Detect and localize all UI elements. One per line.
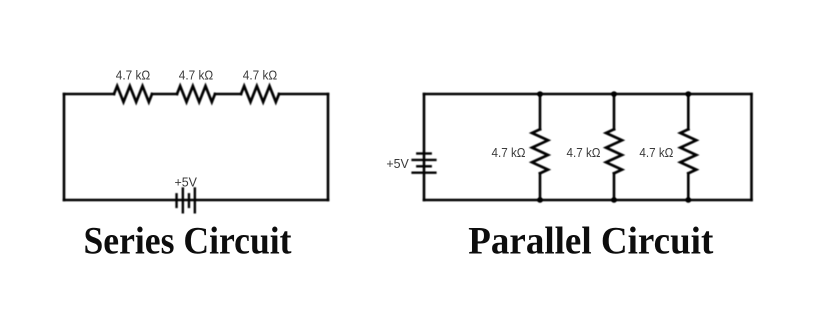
resistor R2 4.7 kΩ (series) <box>177 86 215 102</box>
svg-text:+5V: +5V <box>174 174 197 189</box>
svg-text:4.7 kΩ: 4.7 kΩ <box>567 145 601 160</box>
wire: branch 1 bottom lead <box>539 173 542 200</box>
resistor R3 4.7 kΩ (series) <box>241 86 279 102</box>
junction dot: bottom rail / branch 2 <box>611 197 617 203</box>
junction dot: top rail / branch 2 <box>611 91 617 97</box>
wire: series top segment between R2 and R3 <box>215 93 241 96</box>
junction dot: top rail / branch 3 <box>686 91 692 97</box>
svg-text:Series Circuit: Series Circuit <box>84 220 292 263</box>
wire: series top segment between R1 and R2 <box>152 93 177 96</box>
wire: series circuit left side <box>63 94 66 200</box>
resistor R4 4.7 kΩ (parallel branch 1) <box>532 129 548 173</box>
wire: branch 3 bottom lead <box>687 173 690 200</box>
svg-text:Parallel Circuit: Parallel Circuit <box>468 220 713 263</box>
wire: series circuit right side <box>327 94 330 200</box>
junction dot: bottom rail / branch 3 <box>686 197 692 203</box>
wire: branch 1 top lead <box>539 94 542 129</box>
wire: parallel circuit bottom rail <box>424 199 752 202</box>
svg-text:4.7 kΩ: 4.7 kΩ <box>243 68 278 83</box>
svg-text:4.7 kΩ: 4.7 kΩ <box>492 145 526 160</box>
svg-text:4.7 kΩ: 4.7 kΩ <box>179 68 214 83</box>
battery V1 +5V (series, horizontal) <box>177 189 195 213</box>
resistor R5 4.7 kΩ (parallel branch 2) <box>606 129 622 173</box>
wire: series top-left segment <box>64 93 114 96</box>
svg-text:+5V: +5V <box>386 156 409 171</box>
junction dot: top rail / branch 1 <box>537 91 543 97</box>
wire: branch 3 top lead <box>687 94 690 129</box>
resistor R6 4.7 kΩ (parallel branch 3) <box>680 129 696 173</box>
svg-text:4.7 kΩ: 4.7 kΩ <box>639 145 673 160</box>
wire: parallel circuit top rail <box>424 93 752 96</box>
resistor R1 4.7 kΩ (series) <box>114 86 152 102</box>
wire: branch 2 top lead <box>613 94 616 129</box>
wire: branch 2 bottom lead <box>613 173 616 200</box>
wire: parallel circuit left side (through battery) <box>423 94 426 200</box>
wire: series top-right segment <box>279 93 328 96</box>
junction dot: bottom rail / branch 1 <box>537 197 543 203</box>
battery V2 +5V (parallel, vertical) <box>413 154 436 173</box>
wire: parallel circuit right side <box>750 94 753 200</box>
wire: series circuit bottom side <box>64 199 328 202</box>
svg-text:4.7 kΩ: 4.7 kΩ <box>116 68 151 83</box>
